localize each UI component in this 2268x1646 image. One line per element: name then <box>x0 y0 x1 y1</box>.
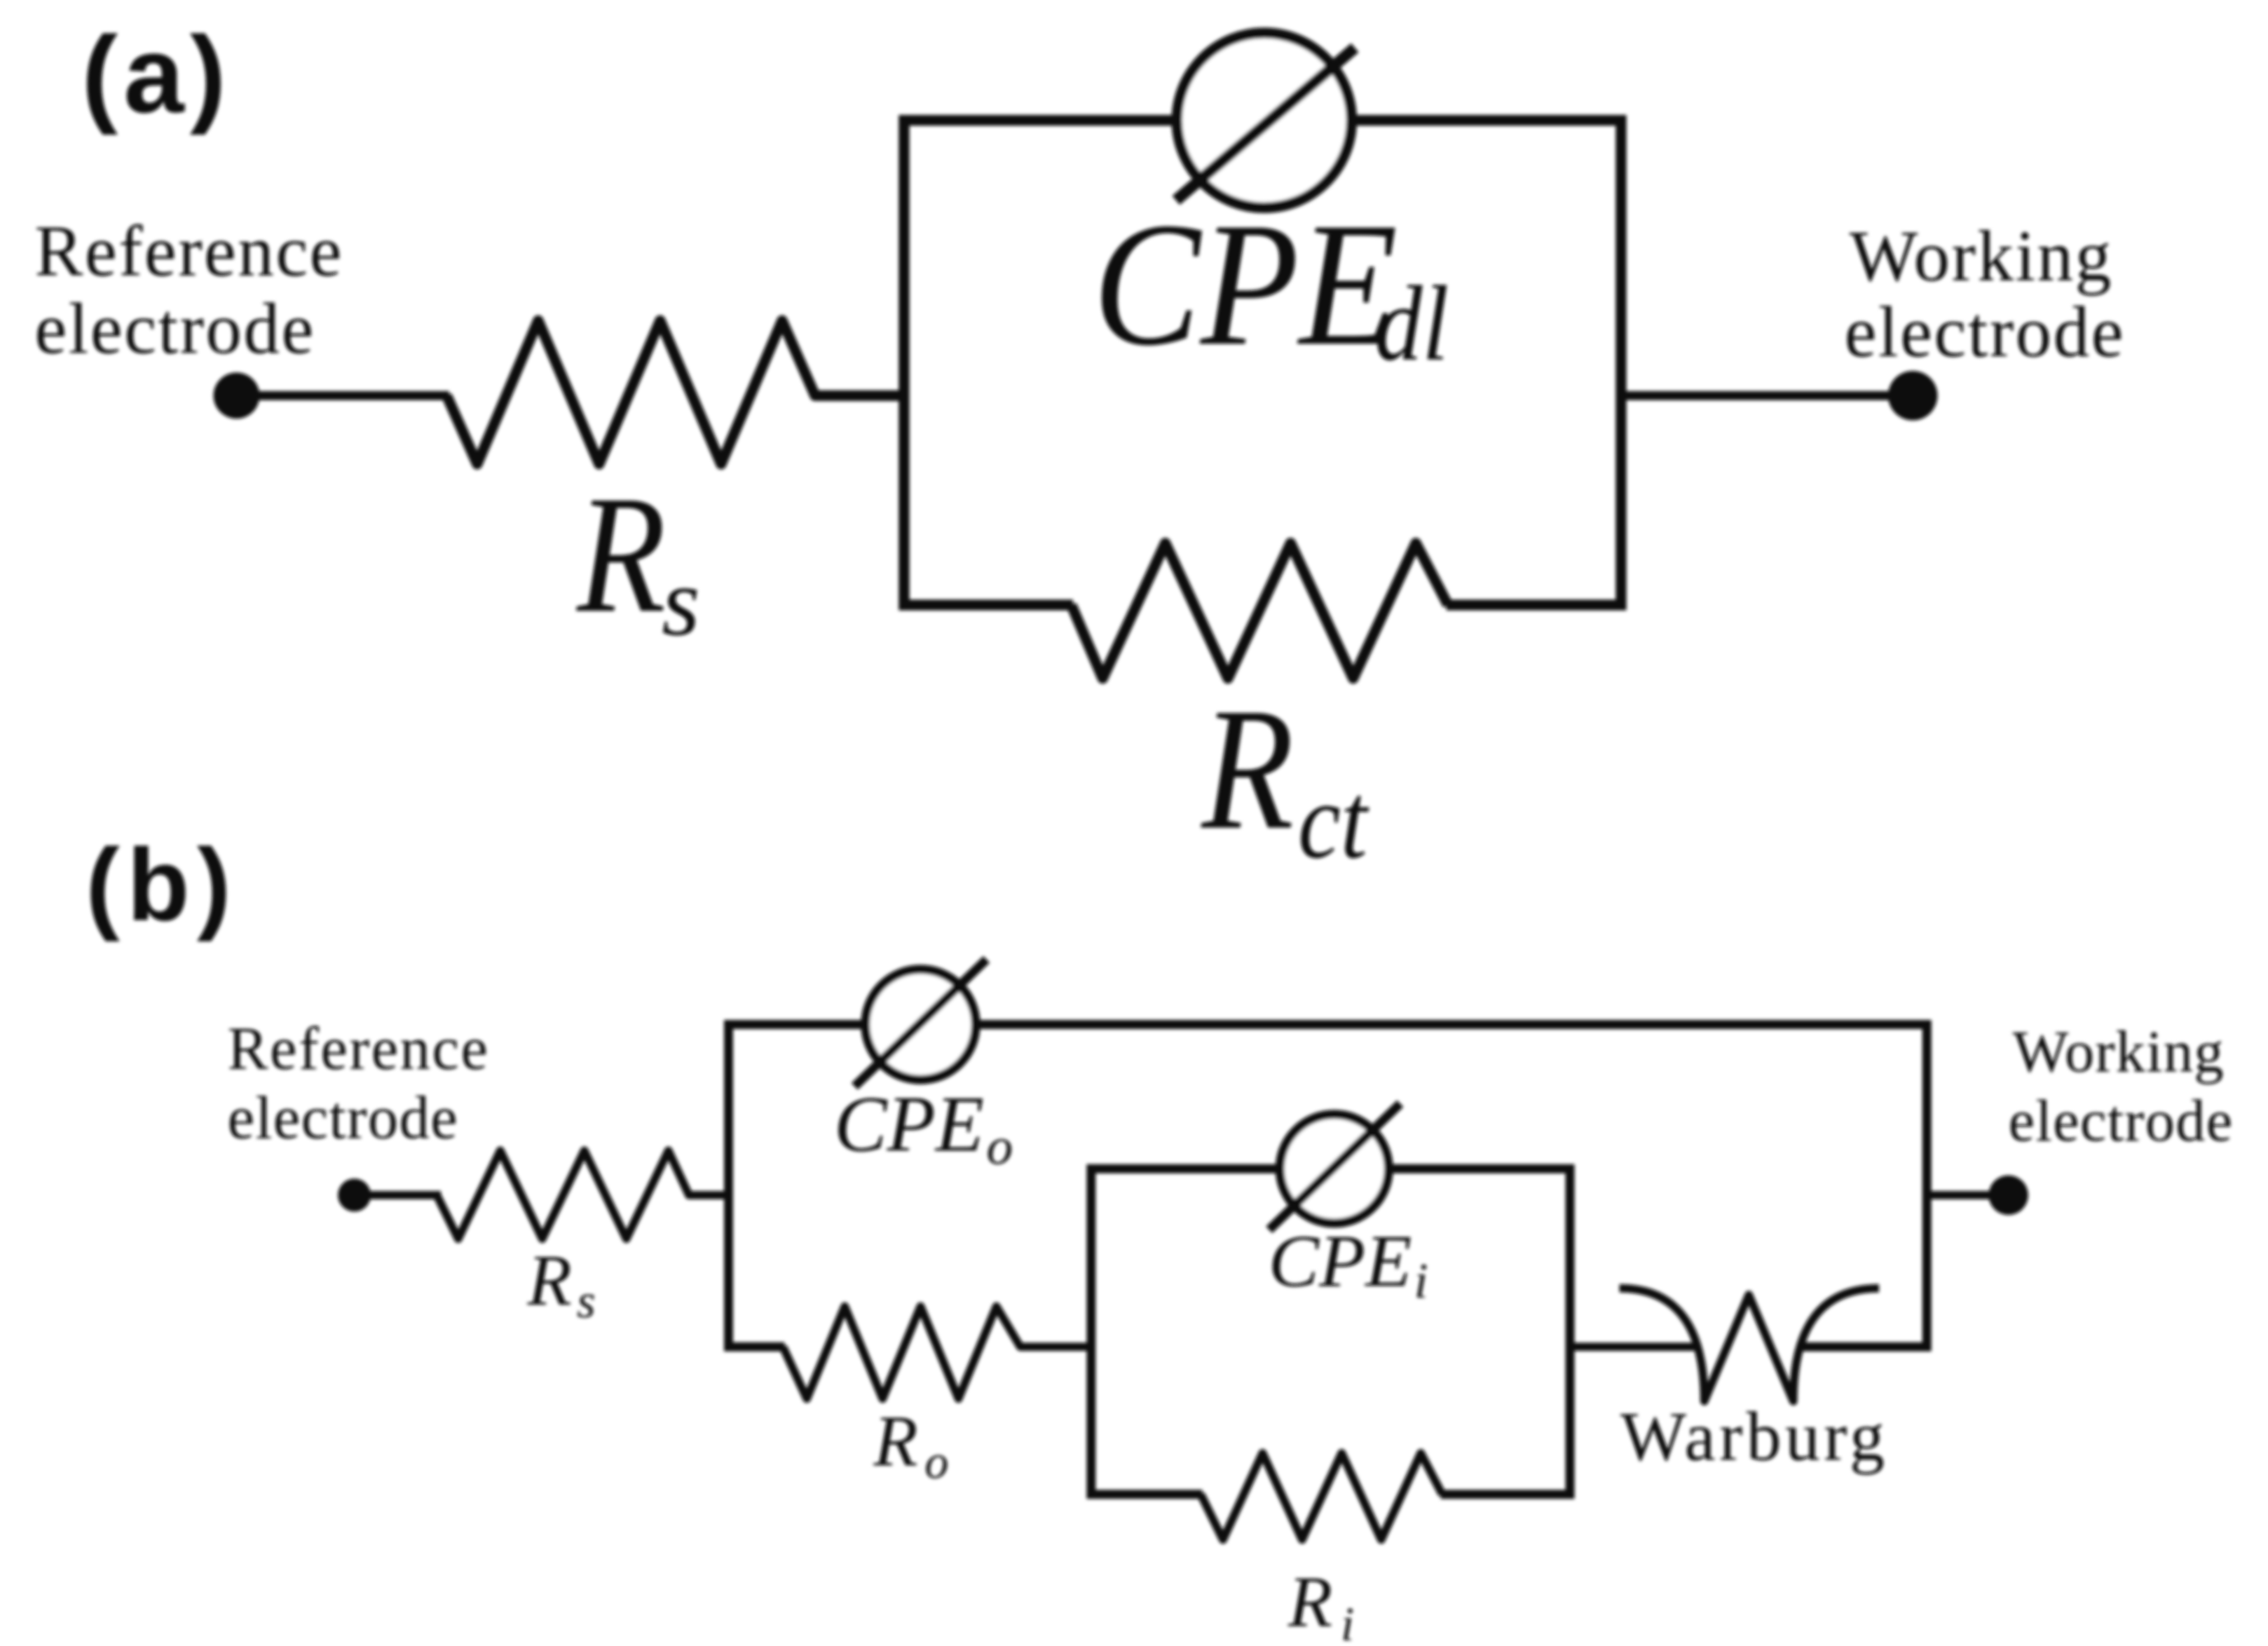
svg-text:s: s <box>662 547 700 656</box>
resistor Ri (b) <box>1201 1453 1442 1540</box>
svg-text:electrode: electrode <box>227 1085 458 1152</box>
wire: outer box (b) top edge, right edge, bottom-right segment <box>979 1025 1927 1347</box>
CPE element CPEi (circle with slash) <box>1269 1104 1400 1230</box>
svg-text:CPE: CPE <box>1268 1221 1412 1302</box>
svg-text:Working: Working <box>2013 1019 2224 1085</box>
svg-text:electrode: electrode <box>2008 1088 2233 1154</box>
node: Working electrode terminal (a) <box>1844 217 2125 420</box>
value label CPEi <box>1268 1221 1428 1308</box>
panel label (a) <box>82 14 232 135</box>
wire: outer box (b) to working electrode <box>1927 1191 1994 1199</box>
svg-text:Reference: Reference <box>227 1015 490 1083</box>
panel label (b) <box>86 828 238 942</box>
value label Rct (a) <box>1200 672 1370 881</box>
resistor Ro (b) <box>783 1306 1093 1399</box>
svg-text:Warburg: Warburg <box>1620 1398 1888 1475</box>
node: Reference electrode terminal (a) <box>35 212 344 419</box>
Warburg element (b) <box>1619 1288 1879 1401</box>
svg-text:electrode: electrode <box>1844 293 2125 373</box>
wire: reference terminal to Rs (b) <box>354 1191 441 1199</box>
wire: reference terminal to Rs (a) <box>237 392 449 401</box>
wire: outer box (b) left edge and corners <box>729 1025 862 1347</box>
value label CPEdl <box>1093 185 1449 383</box>
CPE element CPEo (circle with slash) <box>855 959 986 1086</box>
node: Reference electrode terminal (b) <box>227 1015 490 1212</box>
CPE element CPEdl (circle with slash) <box>1176 33 1355 208</box>
svg-text:R: R <box>1287 1563 1333 1643</box>
value label CPEo <box>834 1080 1013 1175</box>
wire: box (a) to working electrode <box>1621 392 1895 401</box>
svg-text:o: o <box>986 1117 1013 1175</box>
svg-text:Working: Working <box>1849 217 2113 297</box>
svg-text:R: R <box>873 1402 918 1482</box>
svg-text:R: R <box>575 462 666 648</box>
svg-text:CPE: CPE <box>1093 185 1398 382</box>
svg-text:ct: ct <box>1298 760 1370 881</box>
svg-text:electrode: electrode <box>35 289 315 369</box>
resistor Rct (a) <box>1071 543 1448 678</box>
value label Ri (b) <box>1287 1563 1354 1646</box>
svg-text:CPE: CPE <box>834 1080 984 1168</box>
svg-text:(a): (a) <box>82 14 232 135</box>
wire: inner box (b) left edge and corners <box>1091 1169 1277 1494</box>
resistor Rs (b) <box>437 1151 729 1239</box>
svg-text:dl: dl <box>1375 265 1449 383</box>
wire: parallel box (a) left edge and corners <box>904 120 1177 605</box>
svg-text:o: o <box>925 1435 949 1489</box>
svg-text:i: i <box>1341 1597 1354 1646</box>
svg-text:(b): (b) <box>86 828 238 942</box>
svg-text:R: R <box>527 1241 572 1321</box>
value label Ro (b) <box>873 1402 949 1489</box>
value label Rs (b) <box>527 1241 596 1328</box>
svg-text:Reference: Reference <box>35 212 344 292</box>
wire: inner box (b) to Warburg <box>1570 1343 1698 1351</box>
node: Working electrode terminal (b) <box>1989 1019 2233 1215</box>
resistor Rs (a) <box>447 321 904 464</box>
svg-text:s: s <box>577 1274 596 1328</box>
value label Warburg <box>1620 1398 1888 1475</box>
wire: inner box (b) right edge and corners <box>1392 1169 1570 1494</box>
svg-text:i: i <box>1414 1254 1428 1308</box>
wire: parallel box (a) right edge and corners <box>1352 120 1621 605</box>
value label Rs (a) <box>575 462 700 656</box>
svg-text:R: R <box>1200 672 1294 865</box>
